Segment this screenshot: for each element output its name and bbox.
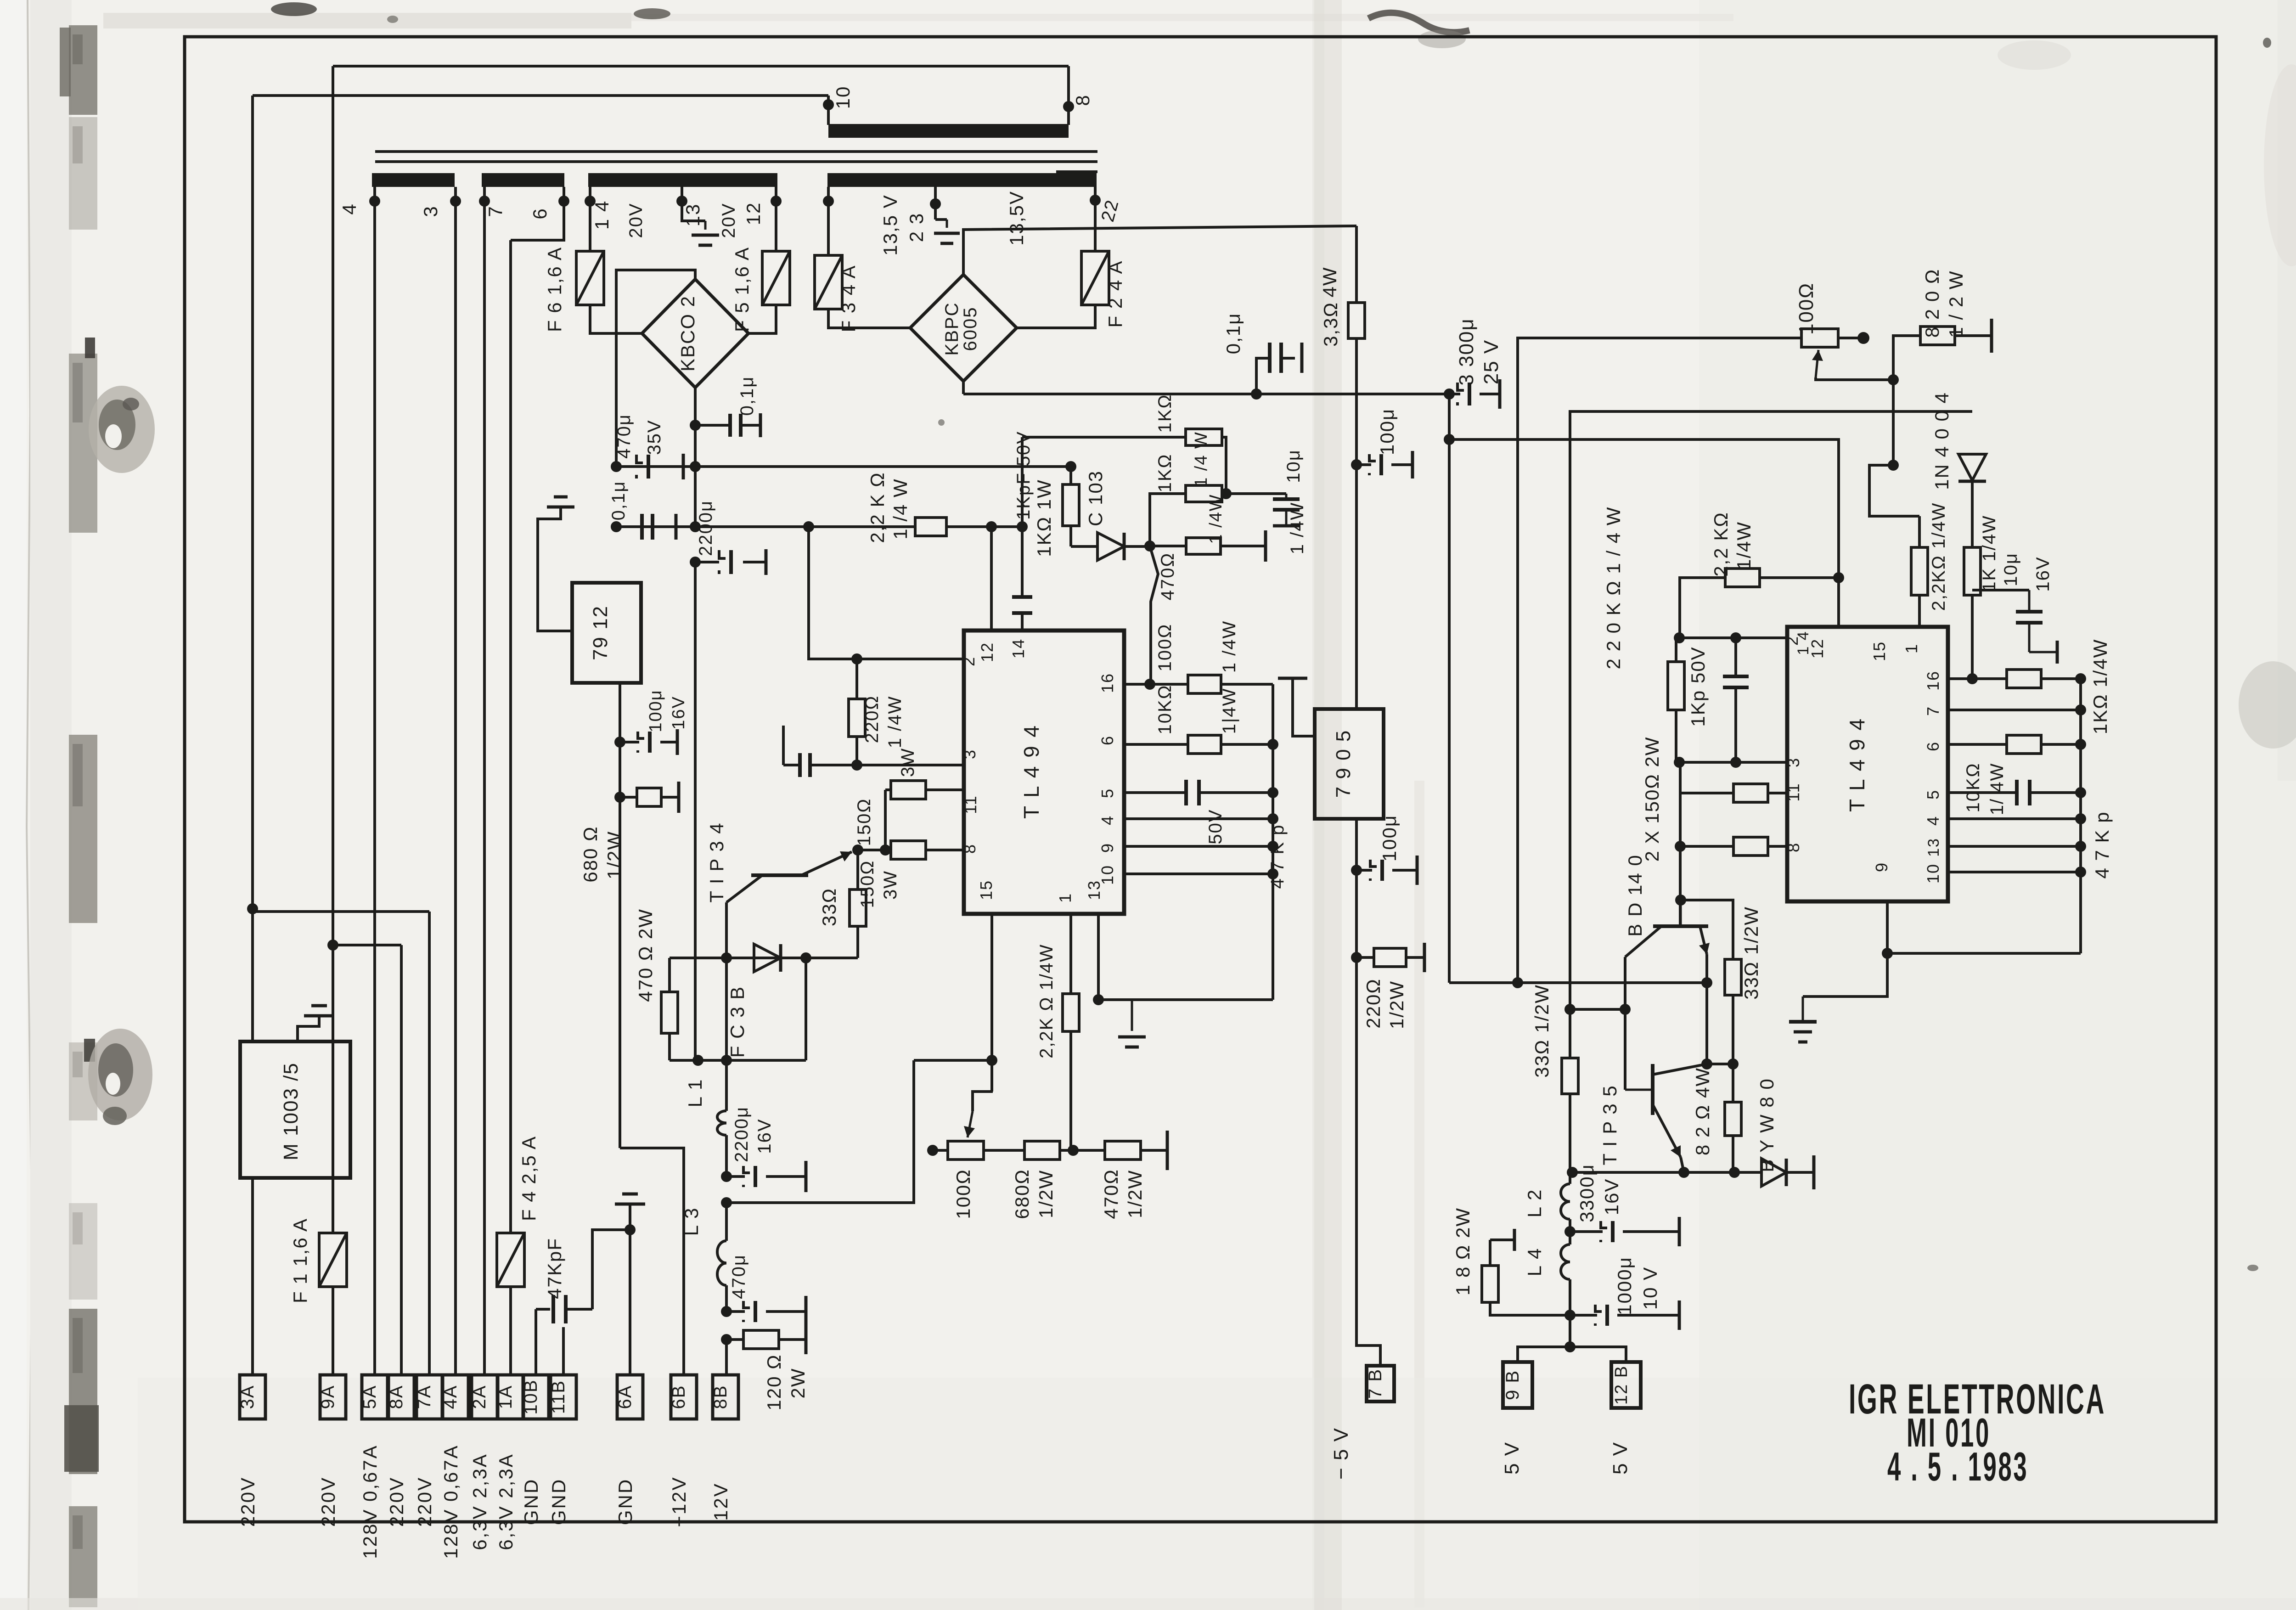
node output split bbox=[1564, 1341, 1576, 1352]
svg-text:9: 9 bbox=[1872, 862, 1891, 872]
resistor 2,2K 1/4W bbox=[946, 525, 1022, 528]
resistor 33ohm 1/2W left bbox=[1569, 1009, 1571, 1058]
transformer core gap marks bbox=[1056, 170, 1097, 173]
svg-text:1 / 2 W: 1 / 2 W bbox=[1945, 270, 1967, 338]
wire 7A vertical bbox=[428, 912, 431, 1375]
rail 12V to jog bbox=[726, 1060, 914, 1203]
svg-text:12: 12 bbox=[978, 642, 996, 662]
node rail2 left bbox=[611, 521, 622, 532]
svg-text:10: 10 bbox=[1924, 863, 1942, 884]
svg-text:12: 12 bbox=[743, 202, 764, 225]
node FC3B left bbox=[721, 952, 732, 963]
wire 6A vertical bbox=[629, 1218, 631, 1375]
node rail5V c bbox=[1729, 1167, 1740, 1178]
svg-text:5 V: 5 V bbox=[1501, 1441, 1523, 1475]
wire pin16 bbox=[1124, 683, 1188, 686]
wire 8A vertical bbox=[400, 945, 403, 1375]
svg-text:2 3: 2 3 bbox=[906, 213, 927, 242]
capacitor 470u bbox=[726, 1310, 745, 1313]
svg-text:8: 8 bbox=[1072, 94, 1093, 106]
node C103 cathode bbox=[1144, 540, 1155, 552]
svg-text:16V: 16V bbox=[669, 696, 688, 730]
wire 9A vertical bbox=[332, 66, 334, 1233]
transformer core line 2 bbox=[375, 160, 1097, 163]
diode 1N4004 bbox=[1958, 454, 1986, 480]
svg-text:5A: 5A bbox=[360, 1385, 380, 1409]
svg-text:35V: 35V bbox=[644, 419, 664, 455]
capacitor 10u chain bbox=[1226, 492, 1286, 495]
node emitter bottom bbox=[1701, 1058, 1712, 1070]
svg-text:33Ω: 33Ω bbox=[818, 888, 840, 926]
resistor 220ohm 1/2W bbox=[1356, 956, 1374, 959]
svg-text:8 2 Ω 4W: 8 2 Ω 4W bbox=[1692, 1067, 1713, 1155]
svg-text:0,1μ: 0,1μ bbox=[608, 481, 629, 521]
capacitor 470u 35V bbox=[636, 455, 643, 463]
svg-text:9 B: 9 B bbox=[1503, 1370, 1523, 1400]
node sense pot bbox=[1512, 977, 1523, 988]
svg-text:0,1μ: 0,1μ bbox=[1222, 313, 1244, 355]
svg-text:5 V: 5 V bbox=[1609, 1441, 1632, 1475]
node collector link b bbox=[1620, 1004, 1631, 1015]
rail U2 pin2 bbox=[1679, 636, 1787, 639]
svg-text:16V: 16V bbox=[1601, 1178, 1622, 1216]
rail pin13 bbox=[1098, 998, 1273, 1001]
svg-text:1/2W: 1/2W bbox=[1386, 980, 1407, 1029]
svg-text:2200μ: 2200μ bbox=[696, 500, 716, 556]
svg-text:1A: 1A bbox=[495, 1385, 516, 1409]
title MI 010 bbox=[1907, 1410, 1991, 1455]
node 9A-8A junction bbox=[327, 940, 338, 951]
wire pin23 ground stub bbox=[934, 204, 937, 220]
svg-text:2200μ: 2200μ bbox=[732, 1106, 752, 1162]
svg-text:150Ω: 150Ω bbox=[854, 798, 874, 846]
wire TIP35 emitter bbox=[1681, 1157, 1684, 1172]
node rail1 right bbox=[690, 461, 701, 472]
svg-text:3W: 3W bbox=[880, 870, 900, 900]
wire to 9B/12B bbox=[1569, 1315, 1571, 1347]
svg-text:128V 0,67A: 128V 0,67A bbox=[440, 1444, 461, 1559]
svg-text:220Ω: 220Ω bbox=[1362, 978, 1384, 1028]
svg-text:3W: 3W bbox=[898, 748, 918, 777]
svg-text:KBPC: KBPC bbox=[942, 302, 962, 356]
svg-text:16: 16 bbox=[1924, 670, 1942, 691]
svg-text:−12V: −12V bbox=[668, 1476, 690, 1527]
wire 12V to 8B bbox=[725, 1340, 728, 1375]
node wiper right bbox=[1888, 374, 1899, 385]
svg-text:L 4: L 4 bbox=[1524, 1248, 1545, 1277]
potentiometer 100ohm right bbox=[1801, 329, 1838, 347]
resistor 1K chain b bbox=[1150, 494, 1186, 546]
svg-text:470Ω: 470Ω bbox=[1158, 552, 1178, 601]
svg-text:4: 4 bbox=[338, 203, 360, 214]
svg-text:4: 4 bbox=[1098, 815, 1117, 825]
winding bar B bbox=[482, 173, 564, 187]
connector 9B bbox=[1503, 1362, 1532, 1408]
rail 13,5V mid bbox=[963, 393, 1449, 395]
resistor 2,2K 1/4W pin1 bbox=[1069, 914, 1072, 994]
capacitor 10u 16V bbox=[1972, 589, 2029, 591]
pot wiper arrow bbox=[973, 1092, 993, 1111]
wire pin10 bbox=[1124, 873, 1273, 875]
node pin 10 bbox=[823, 99, 834, 110]
node pot feed bbox=[721, 1197, 732, 1208]
svg-text:20V: 20V bbox=[626, 203, 646, 238]
svg-text:F 3 4 A: F 3 4 A bbox=[838, 265, 859, 332]
capacitor 3300u 16V bbox=[1570, 1230, 1603, 1233]
svg-text:2,2 K Ω: 2,2 K Ω bbox=[867, 472, 888, 543]
connector 7B bbox=[1367, 1366, 1394, 1402]
svg-text:220V: 220V bbox=[414, 1476, 435, 1527]
bridge rectifier KBCO2 bbox=[642, 279, 748, 388]
svg-text:220V: 220V bbox=[386, 1476, 407, 1527]
svg-text:470Ω: 470Ω bbox=[1100, 1169, 1122, 1219]
node FC3B right bbox=[800, 952, 811, 963]
svg-text:11B: 11B bbox=[548, 1380, 568, 1414]
connector 8A bbox=[388, 1375, 414, 1419]
svg-text:3300μ: 3300μ bbox=[1576, 1164, 1598, 1222]
svg-text:470μ: 470μ bbox=[614, 414, 634, 459]
svg-text:33Ω 1/2W: 33Ω 1/2W bbox=[1531, 984, 1553, 1078]
node 680ohm bbox=[614, 792, 625, 803]
svg-text:3: 3 bbox=[960, 749, 979, 759]
svg-text:100Ω: 100Ω bbox=[1795, 282, 1818, 335]
svg-text:8B: 8B bbox=[710, 1385, 731, 1409]
svg-text:1/2W: 1/2W bbox=[1035, 1170, 1057, 1218]
node 6A ground junction bbox=[625, 1224, 636, 1235]
wire pin5 bbox=[1124, 791, 1186, 794]
svg-text:2,2K Ω 1/4W: 2,2K Ω 1/4W bbox=[1036, 944, 1057, 1058]
svg-text:10KΩ: 10KΩ bbox=[1963, 762, 1983, 812]
node 1Kp bottom bbox=[1730, 757, 1741, 768]
connector 2A bbox=[472, 1375, 497, 1419]
svg-text:100Ω: 100Ω bbox=[1155, 624, 1175, 672]
svg-text:6,3V 2,3A: 6,3V 2,3A bbox=[469, 1453, 490, 1550]
wire to 12B bbox=[1570, 1347, 1626, 1362]
node 220V branch A bbox=[247, 903, 258, 914]
svg-text:2,2KΩ 1/4W: 2,2KΩ 1/4W bbox=[1929, 502, 1949, 611]
svg-text:6005: 6005 bbox=[960, 307, 980, 351]
node rail5V a bbox=[1567, 1167, 1578, 1178]
wire 220V branch horizontal bbox=[253, 910, 429, 913]
ground symbol 6A bbox=[629, 1204, 631, 1218]
node TIP34 collector bbox=[852, 844, 863, 856]
svg-text:T L 4 9 4: T L 4 9 4 bbox=[1019, 724, 1043, 819]
node 220K bottom bbox=[1674, 757, 1685, 768]
regulator 7905 bbox=[1315, 709, 1384, 819]
wire pin4 bbox=[1124, 817, 1273, 820]
wire pin10 drop bbox=[827, 96, 830, 125]
winding bar C bbox=[588, 173, 777, 187]
wire U2 pin13 bbox=[1948, 845, 2081, 848]
wire F5 to KBCO2 bbox=[748, 305, 776, 333]
svg-text:220V: 220V bbox=[237, 1476, 259, 1527]
resistor 33ohm bbox=[856, 850, 859, 889]
winding bar D bbox=[827, 173, 1097, 187]
resistor 2,2K top loop bbox=[1680, 578, 1725, 638]
svg-text:13: 13 bbox=[682, 203, 703, 227]
node rail3 bbox=[690, 557, 701, 568]
node 100u 7905 bbox=[1351, 865, 1362, 876]
svg-text:1KpF 50V: 1KpF 50V bbox=[1013, 431, 1034, 520]
svg-text:16: 16 bbox=[1098, 673, 1117, 693]
svg-text:1 /4W: 1 /4W bbox=[885, 696, 905, 748]
svg-text:15: 15 bbox=[977, 880, 996, 900]
resistor 18ohm 2W bbox=[1489, 1240, 1491, 1266]
wire jog to 2,2K bbox=[1869, 465, 1919, 516]
node 3300u bbox=[1444, 388, 1455, 400]
wire pot feed up bbox=[1518, 338, 1801, 983]
ground symbol pin 23 bbox=[946, 220, 948, 228]
svg-text:11: 11 bbox=[961, 795, 980, 814]
resistor 2,2K right bbox=[1918, 516, 1921, 547]
ground pin13 bbox=[1131, 1000, 1133, 1031]
wire 220V top rail to pin 10 bbox=[253, 94, 828, 97]
resistor 10K 1/4W bbox=[1188, 735, 1221, 754]
IC U1 TL494 bbox=[964, 630, 1124, 914]
svg-text:5: 5 bbox=[1098, 788, 1117, 798]
wire diode feed up bbox=[1570, 411, 1972, 1009]
inductor L1 bbox=[725, 1060, 728, 1111]
svg-text:4A: 4A bbox=[440, 1385, 461, 1409]
svg-text:T I P 3 4: T I P 3 4 bbox=[706, 822, 727, 902]
svg-text:B Y W 8 0: B Y W 8 0 bbox=[1756, 1078, 1778, 1172]
capacitor 3300u 25V bbox=[1449, 393, 1460, 395]
connector 1A bbox=[498, 1375, 523, 1419]
resistor 220K 1/4W bbox=[1675, 638, 1677, 662]
bus U1 right bbox=[1272, 684, 1274, 1000]
title IGR ELETTRONICA bbox=[1849, 1376, 2106, 1423]
svg-text:680Ω: 680Ω bbox=[1011, 1169, 1033, 1219]
capacitor 0,1u mid bbox=[1251, 388, 1262, 400]
wire 33ohm right top bbox=[1681, 900, 1733, 959]
svg-text:F 2 4 A: F 2 4 A bbox=[1104, 260, 1126, 327]
pin 4 node bbox=[369, 196, 380, 207]
svg-text:14: 14 bbox=[1009, 638, 1028, 659]
fuse F6 1,6A bbox=[576, 251, 604, 305]
svg-text:1 4: 1 4 bbox=[591, 200, 613, 230]
wire U2 pin5 bbox=[1948, 791, 2017, 794]
rail pin15 to 12V jog bbox=[914, 1059, 993, 1062]
resistor 3,3ohm 4W bbox=[1355, 226, 1358, 303]
wire pin14 up bbox=[1021, 437, 1024, 597]
resistor 10K pin6 bbox=[2007, 735, 2041, 754]
capacitor 100u 7905 bbox=[1356, 869, 1372, 872]
node 150b bbox=[1675, 841, 1686, 852]
svg-text:10: 10 bbox=[1098, 865, 1117, 885]
connector 4A bbox=[443, 1375, 468, 1419]
svg-text:4 . 5 . 1983: 4 . 5 . 1983 bbox=[1887, 1444, 2028, 1489]
resistor 820ohm 1/2W bbox=[1893, 336, 1920, 380]
wire -12V to 6B bbox=[620, 1148, 684, 1375]
svg-text:1Kp 50V: 1Kp 50V bbox=[1687, 646, 1709, 726]
wire pin15 down bbox=[990, 914, 993, 1060]
svg-text:220V: 220V bbox=[317, 1476, 339, 1527]
svg-text:12: 12 bbox=[1808, 638, 1827, 659]
capacitor 1Kp 50V bbox=[1734, 638, 1737, 676]
resistor 150ohm b U2 bbox=[1680, 845, 1733, 848]
wire 8A link bbox=[333, 944, 401, 946]
svg-text:7 9 0 5: 7 9 0 5 bbox=[1332, 730, 1355, 798]
resistor 220ohm 1/4W bbox=[851, 653, 862, 664]
svg-text:L 1: L 1 bbox=[684, 1079, 706, 1108]
svg-text:1KΩ: 1KΩ bbox=[1155, 454, 1175, 493]
node 1000u bbox=[1564, 1310, 1576, 1321]
svg-text:13,5 V: 13,5 V bbox=[879, 194, 901, 255]
pin 12 node bbox=[771, 196, 782, 207]
node 2,2K right top bbox=[1888, 460, 1899, 471]
svg-text:L 3: L 3 bbox=[681, 1207, 702, 1236]
winding bar primary top bbox=[828, 124, 1069, 138]
svg-text:100μ: 100μ bbox=[1379, 815, 1400, 861]
rail Y2 to U2 bbox=[1449, 439, 1839, 627]
svg-text:10KΩ: 10KΩ bbox=[1155, 684, 1175, 734]
svg-text:2 X 150Ω 2W: 2 X 150Ω 2W bbox=[1641, 737, 1663, 862]
transformer core line 1 bbox=[375, 150, 1097, 153]
svg-text:4W: 4W bbox=[1319, 267, 1340, 298]
ground U2 pin9 bbox=[1802, 996, 1804, 1022]
svg-text:100μ: 100μ bbox=[646, 689, 665, 732]
node 220K top bbox=[1674, 632, 1685, 643]
svg-text:13,5V: 13,5V bbox=[1006, 191, 1027, 246]
fuse F3 4A bbox=[815, 255, 842, 309]
capacitor 1KpF 50V bbox=[1012, 595, 1032, 599]
svg-text:150Ω: 150Ω bbox=[857, 860, 878, 908]
diode C103 bbox=[1071, 545, 1097, 548]
node pin 8 bbox=[1063, 101, 1074, 112]
wire pin12 to F5 bbox=[775, 203, 777, 251]
wire F3 to KBPC bbox=[828, 309, 910, 328]
svg-text:1KΩ 1/4W: 1KΩ 1/4W bbox=[2089, 639, 2111, 734]
svg-text:1KΩ 1W: 1KΩ 1W bbox=[1033, 479, 1055, 557]
wire C103 to pin16 bbox=[1150, 546, 1158, 684]
capacitor 100u mid bbox=[1356, 463, 1371, 466]
resistor 470ohm 1/4W chain bbox=[1150, 545, 1186, 547]
svg-text:6: 6 bbox=[1924, 741, 1942, 751]
svg-text:1000μ: 1000μ bbox=[1614, 1256, 1635, 1315]
svg-text:6: 6 bbox=[1098, 735, 1117, 745]
svg-text:2A: 2A bbox=[469, 1385, 490, 1409]
node pot row left bbox=[927, 1145, 938, 1156]
transistor TIP35 bbox=[1651, 1064, 1654, 1115]
capacitor 2200u 16V bbox=[726, 1175, 745, 1178]
wire BD140 emitter down bbox=[1705, 954, 1708, 1064]
wire wiper down bbox=[1892, 380, 1895, 465]
svg-text:33Ω 1/2W: 33Ω 1/2W bbox=[1740, 906, 1762, 1000]
svg-text:220Ω: 220Ω bbox=[862, 695, 882, 743]
svg-text:1 /4W: 1 /4W bbox=[1219, 620, 1239, 673]
wire KBCO2 top out bbox=[616, 270, 695, 467]
module M1003/5 bbox=[240, 1041, 350, 1178]
wire Y1 down bbox=[1448, 394, 1451, 439]
pin D-left node bbox=[823, 196, 834, 207]
svg-text:− 5 V: − 5 V bbox=[1330, 1427, 1352, 1480]
connector 5A bbox=[362, 1375, 388, 1419]
fuse F4 2,5A bbox=[497, 1233, 524, 1287]
resistor 470ohm 2W bbox=[668, 958, 671, 992]
resistor 150ohm a U2 bbox=[1680, 792, 1733, 794]
svg-text:9A: 9A bbox=[318, 1385, 338, 1409]
resistor 33ohm 1/2W right bbox=[1725, 959, 1741, 995]
ground symbol pin 13 bbox=[704, 221, 707, 230]
pin 22 node bbox=[1090, 195, 1101, 206]
wire collector link bbox=[1570, 1008, 1625, 1011]
pin 14 node bbox=[585, 196, 596, 207]
svg-text:5: 5 bbox=[1924, 789, 1942, 799]
connector 6B bbox=[671, 1375, 697, 1419]
wire 3,3ohm to 7905 bbox=[1355, 465, 1358, 709]
svg-text:1/ 4W: 1/ 4W bbox=[1987, 763, 2007, 815]
diode FC3B bbox=[754, 944, 781, 972]
node TIP34 base rail bbox=[721, 1055, 732, 1066]
diode BYW80 bbox=[1761, 1159, 1786, 1186]
capacitor pin3 bbox=[798, 753, 802, 777]
wire 4A / pin3 vertical bbox=[454, 202, 457, 1375]
capacitor 100u 16V bbox=[620, 741, 639, 743]
capacitor 0,1u left bbox=[640, 514, 644, 540]
wire pin22 to F2 bbox=[1094, 202, 1097, 251]
svg-text:6: 6 bbox=[529, 208, 551, 219]
wire 5A / pin4 vertical bbox=[373, 203, 376, 1375]
wire emitter to 33 bbox=[1707, 1063, 1733, 1065]
node 3300u16 node bbox=[1564, 1226, 1576, 1237]
wire barD-left to F3 bbox=[827, 203, 830, 255]
connector 11B bbox=[551, 1375, 576, 1419]
wire U2 pin6 bbox=[1948, 743, 2007, 746]
resistor 120ohm 2W bbox=[726, 1338, 743, 1341]
wire U2 pin9 down bbox=[1803, 901, 1887, 996]
svg-text:10B: 10B bbox=[521, 1379, 541, 1414]
fuse F2 4A bbox=[1081, 251, 1109, 305]
svg-text:L 2: L 2 bbox=[1524, 1189, 1545, 1218]
pin 23 node bbox=[930, 198, 941, 209]
wire KBPC bottom to gnd rail bbox=[962, 381, 965, 394]
svg-text:6A: 6A bbox=[615, 1385, 635, 1409]
svg-text:0,1μ: 0,1μ bbox=[737, 376, 757, 416]
svg-text:10: 10 bbox=[832, 86, 854, 109]
connector 12B bbox=[1611, 1362, 1641, 1408]
winding bar A bbox=[372, 173, 455, 187]
wire 7912 output bbox=[619, 683, 621, 1148]
wire to 9B bbox=[1518, 1347, 1570, 1362]
wire F2 to KBPC bbox=[1017, 305, 1095, 328]
wire TIP34 base down bbox=[725, 902, 728, 1060]
node pin13 bbox=[1093, 994, 1104, 1005]
node 33ohm bottom bbox=[1728, 1058, 1739, 1070]
svg-text:7: 7 bbox=[484, 205, 506, 217]
svg-text:1/4W: 1/4W bbox=[1733, 521, 1755, 570]
capacitor 1000u 10V bbox=[1570, 1314, 1597, 1317]
svg-text:4: 4 bbox=[1924, 816, 1942, 826]
wire 220V-B top rail to pin 8 bbox=[333, 65, 1069, 68]
svg-text:13: 13 bbox=[1925, 838, 1942, 857]
node Y2 bbox=[1444, 434, 1455, 445]
wire 150 link bbox=[884, 790, 887, 850]
rail +5V sense bbox=[1449, 981, 1707, 984]
svg-text:12V: 12V bbox=[710, 1482, 732, 1521]
resistor 100ohm 1/4W bbox=[1188, 675, 1221, 693]
svg-text:6,3V 2,3A: 6,3V 2,3A bbox=[495, 1453, 517, 1550]
svg-text:C 103: C 103 bbox=[1085, 470, 1106, 526]
pin 13 node bbox=[676, 196, 687, 207]
node collector link a bbox=[1564, 1004, 1576, 1015]
svg-text:T I P 3 5: T I P 3 5 bbox=[1599, 1085, 1621, 1165]
svg-text:470μ: 470μ bbox=[729, 1254, 749, 1299]
wire 1A / pin6 vertical bbox=[509, 240, 512, 1233]
resistor 150ohm 3W a bbox=[891, 781, 926, 799]
rail 0,1u row bbox=[616, 525, 915, 528]
svg-text:10 V: 10 V bbox=[1639, 1267, 1661, 1310]
transistor BD140 bbox=[1653, 924, 1708, 928]
